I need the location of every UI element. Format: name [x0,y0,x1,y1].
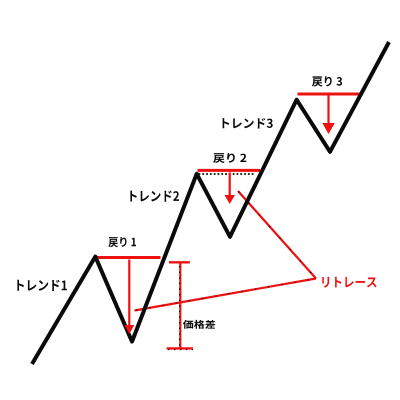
retrace pointer line upper [238,191,316,279]
price range measure vertical line [179,262,182,348]
label trend 2 [130,191,179,202]
retrace pointer line lower [135,279,317,311]
label trend 1 [17,280,67,291]
price zigzag trend line [32,42,389,364]
pullback level line 1 [94,256,161,259]
down arrow 3 [322,96,335,135]
measure bottom cap [167,348,193,349]
label modori 2 [213,153,246,163]
label trend 3 [223,118,273,129]
dotted guide under level line 2 [199,173,255,175]
down arrow 2 [225,173,236,205]
pullback level line 3 [298,93,361,96]
down arrow 1 [124,260,134,335]
label retrace (red) [322,277,376,288]
label modori 3 [312,76,342,86]
pullback level line 2 [198,169,261,172]
measure top cap [169,261,190,263]
label modori 1 [108,237,136,247]
label price range [183,320,215,329]
